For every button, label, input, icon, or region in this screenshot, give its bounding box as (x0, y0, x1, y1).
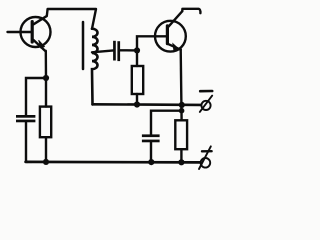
wire Q2 emitter down through mid rail (179, 50, 182, 121)
wire Q1 collector up and top rail to coil (47, 9, 96, 29)
wire mid rail (93, 103, 201, 106)
wire branch left to C3 (151, 111, 182, 135)
node Q2 emitter on mid rail (179, 102, 185, 108)
wire node left to capacitor C1 (26, 78, 46, 115)
resistor R2 (132, 50, 143, 104)
wire L1 tap to C2 (92, 50, 113, 52)
resistor R3 (175, 120, 187, 162)
node R1 bottom (43, 159, 49, 165)
resistor R1 (40, 78, 51, 162)
node branch to C3 (179, 108, 185, 114)
node R3 bottom (178, 159, 184, 165)
wire C2 to node (120, 49, 137, 52)
node Q1 emitter junction (43, 75, 49, 81)
wire C3 to bottom rail (150, 142, 152, 162)
capacitor C3 (142, 134, 160, 142)
wire Q2 collector top (182, 9, 200, 13)
terminal minus (200, 91, 212, 112)
node C2 / R2 / Q2 base junction (134, 47, 140, 53)
node C3 bottom (148, 159, 154, 165)
wire C1 down to bottom rail corner (26, 122, 27, 162)
inductor L1 core (82, 22, 85, 69)
wire node up and right to Q2 base (137, 36, 168, 50)
node R2 bottom on mid rail (134, 101, 140, 107)
inductor L1 winding (92, 29, 98, 105)
terminal plus (199, 146, 212, 169)
wire Q1 emitter down to node (45, 51, 48, 78)
capacitor C2 (113, 41, 120, 61)
wire bottom rail (26, 161, 201, 164)
wire base of Q1 (8, 31, 33, 33)
transistor Q1 (21, 16, 51, 51)
capacitor C1 (16, 115, 35, 122)
transistor Q2 (155, 11, 186, 51)
